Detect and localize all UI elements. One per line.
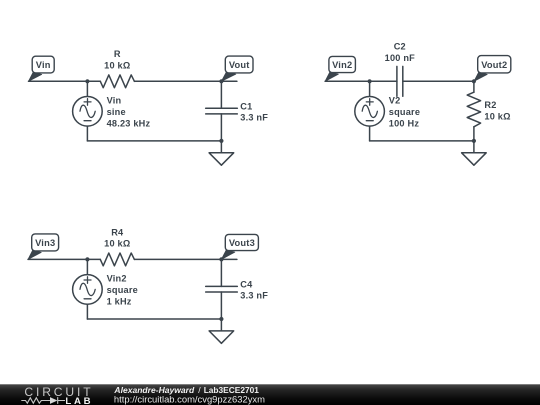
wire capacitor C2 to Vout2 node bbox=[403, 80, 474, 82]
wire V1 bottom lead bbox=[86, 126, 88, 141]
capacitor C4 top plate bbox=[206, 285, 238, 287]
flag Vin3 tail bbox=[28, 250, 41, 259]
svg-text:V2: V2 bbox=[389, 95, 401, 105]
svg-text:Vout3: Vout3 bbox=[229, 238, 255, 248]
voltage source Vin2 minus sign bbox=[84, 298, 91, 300]
footer bar bbox=[0, 384, 540, 405]
wire Vout node to capacitor C1 bbox=[220, 81, 222, 108]
node junction at Vout bbox=[219, 79, 223, 83]
wire resistor R2 to bottom rail bbox=[473, 127, 475, 141]
resistor R bbox=[100, 75, 134, 88]
wire ground stem circuit 3 bbox=[220, 319, 222, 331]
svg-text:C1: C1 bbox=[240, 102, 252, 112]
svg-text:Vin2: Vin2 bbox=[332, 60, 352, 70]
flag Vin2 box bbox=[329, 56, 356, 72]
svg-text:Vout2: Vout2 bbox=[481, 60, 507, 70]
svg-text:Vin2: Vin2 bbox=[107, 274, 127, 284]
voltage source Vin2 sine glyph bbox=[80, 283, 95, 295]
resistor R2 bbox=[467, 92, 480, 127]
wire bottom rail circuit 1 bbox=[87, 140, 221, 142]
voltage source V1 plus sign bbox=[84, 99, 91, 106]
svg-text:http://circuitlab.com/cvg9pzz6: http://circuitlab.com/cvg9pzz632yxm bbox=[114, 394, 265, 405]
svg-text:3.3 nF: 3.3 nF bbox=[240, 113, 268, 123]
wire V2 top lead bbox=[369, 81, 371, 96]
wire V2 bottom lead bbox=[369, 126, 371, 141]
svg-text:square: square bbox=[107, 285, 138, 295]
capacitor C1 top plate bbox=[206, 107, 238, 109]
svg-text:R2: R2 bbox=[484, 100, 496, 110]
flag Vin2 tail bbox=[325, 72, 338, 81]
flag Vout tail bbox=[221, 72, 235, 81]
svg-text:10 kΩ: 10 kΩ bbox=[484, 111, 510, 121]
svg-text:3.3 nF: 3.3 nF bbox=[240, 291, 268, 301]
capacitor C2 left plate bbox=[396, 66, 398, 96]
flag Vin box bbox=[32, 56, 54, 73]
capacitor C2 right plate bbox=[402, 66, 404, 96]
svg-text:square: square bbox=[389, 107, 420, 117]
voltage source V2 minus sign bbox=[366, 120, 373, 122]
wire Vout2 node to resistor R2 bbox=[473, 81, 475, 92]
wire resistor R to Vout node (with flag stub) bbox=[134, 80, 237, 82]
wire Vin2 to capacitor C2 bbox=[325, 80, 397, 82]
capacitor C1 bottom plate bbox=[206, 113, 238, 115]
svg-text:Vin: Vin bbox=[36, 60, 51, 70]
svg-text:C2: C2 bbox=[394, 42, 406, 52]
wire resistor R4 to Vout3 node (with flag stub) bbox=[134, 258, 237, 260]
svg-text:10 kΩ: 10 kΩ bbox=[104, 239, 130, 249]
resistor R4 bbox=[100, 253, 134, 266]
flag Vout3 box bbox=[225, 234, 258, 250]
CircuitLab logo diode cathode bar bbox=[58, 397, 65, 404]
CircuitLab logo diode symbol bbox=[50, 397, 57, 404]
voltage source V2 circle bbox=[355, 97, 385, 127]
flag Vout2 box bbox=[478, 56, 511, 73]
wire bottom rail circuit 3 bbox=[87, 318, 221, 320]
wire bottom rail circuit 2 bbox=[370, 140, 474, 142]
node junction at R2 bottom bbox=[472, 139, 476, 143]
node junction at Vin2 source top bbox=[85, 257, 89, 261]
node junction at V1 top bbox=[85, 79, 89, 83]
wire Vin3 to resistor R4 bbox=[28, 258, 100, 260]
ground symbol circuit 1 bbox=[209, 153, 234, 165]
node junction at Vout2 bbox=[472, 79, 476, 83]
node junction at C4 bottom bbox=[219, 317, 223, 321]
svg-text:100 nF: 100 nF bbox=[385, 53, 415, 63]
wire Vin2 source bottom lead bbox=[86, 304, 88, 319]
voltage source V2 sine glyph bbox=[362, 105, 377, 117]
wire V1 top lead bbox=[86, 81, 88, 96]
flag Vin3 box bbox=[32, 234, 59, 251]
svg-text:Vout: Vout bbox=[229, 60, 250, 70]
CircuitLab logo resistor squiggle bbox=[21, 398, 50, 403]
voltage source Vin2 circle bbox=[73, 275, 103, 305]
wire Vout3 node to capacitor C4 bbox=[220, 259, 222, 286]
svg-text:LAB: LAB bbox=[65, 396, 90, 405]
node junction at Vout3 bbox=[219, 257, 223, 261]
svg-text:10 kΩ: 10 kΩ bbox=[104, 61, 130, 71]
svg-text:100 Hz: 100 Hz bbox=[389, 118, 420, 128]
svg-text:C4: C4 bbox=[240, 280, 253, 290]
svg-text:R: R bbox=[114, 49, 121, 59]
wire Vin2 source top lead bbox=[86, 259, 88, 274]
voltage source V2 plus sign bbox=[366, 99, 373, 106]
flag Vout box bbox=[225, 56, 253, 73]
ground symbol circuit 2 bbox=[462, 153, 487, 165]
node junction at V2 top bbox=[368, 79, 372, 83]
voltage source Vin2 plus sign bbox=[84, 277, 91, 284]
flag Vin tail bbox=[29, 72, 42, 81]
flag Vout3 tail bbox=[221, 250, 234, 260]
wire Vin to resistor R bbox=[29, 80, 101, 82]
wire ground stem circuit 1 bbox=[220, 141, 222, 153]
svg-text:Vin3: Vin3 bbox=[35, 238, 55, 248]
svg-text:48.23 kHz: 48.23 kHz bbox=[107, 118, 151, 128]
voltage source V1 minus sign bbox=[84, 120, 91, 122]
voltage source V1 sine glyph bbox=[80, 105, 95, 117]
svg-text:R4: R4 bbox=[111, 227, 124, 237]
svg-text:Vin: Vin bbox=[107, 95, 122, 105]
wire capacitor C1 to bottom rail bbox=[220, 114, 222, 141]
capacitor C4 bottom plate bbox=[206, 291, 238, 293]
ground symbol circuit 3 bbox=[209, 331, 234, 343]
wire ground stem circuit 2 bbox=[473, 141, 475, 153]
flag Vout2 tail bbox=[474, 72, 487, 81]
svg-text:1 kHz: 1 kHz bbox=[107, 297, 132, 307]
node junction at C1 bottom bbox=[219, 139, 223, 143]
svg-text:sine: sine bbox=[107, 107, 126, 117]
wire capacitor C4 to bottom rail bbox=[220, 292, 222, 319]
voltage source V1 (Vin) circle bbox=[73, 97, 103, 127]
